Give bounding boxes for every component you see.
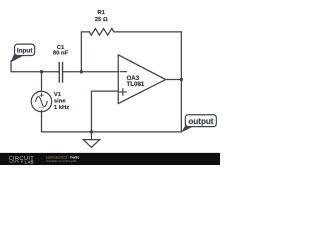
ground <box>90 132 92 140</box>
V1 minus polarity mark <box>39 106 44 108</box>
V1 plus polarity mark <box>40 94 43 96</box>
wire V1 bottom <box>41 111 43 132</box>
op-amp inverting input mark <box>120 71 126 73</box>
output flag <box>181 115 216 133</box>
svg-text:LAB: LAB <box>25 159 34 164</box>
node junction C1/feedback <box>80 70 83 73</box>
logo waveform <box>9 161 20 163</box>
labels <box>53 10 145 111</box>
watermark bar <box>0 153 220 165</box>
wire op-amp output <box>166 79 182 81</box>
svg-text:25 Ω: 25 Ω <box>95 17 108 23</box>
svg-text:input: input <box>17 47 33 54</box>
node junction ground <box>90 130 93 133</box>
wire feedback left <box>81 32 89 72</box>
svg-text:TL081: TL081 <box>126 81 144 88</box>
logo lightning <box>21 160 23 164</box>
op-amp non-inverting input mark <box>120 91 126 93</box>
capacitor C1 <box>58 62 60 82</box>
svg-text:1 kHz: 1 kHz <box>54 105 69 111</box>
svg-text:V1: V1 <box>54 92 62 98</box>
svg-text:80 nF: 80 nF <box>53 51 69 57</box>
wire cap to op-amp minus <box>63 71 119 73</box>
input flag <box>11 44 35 62</box>
wire op-amp plus input <box>91 91 118 132</box>
svg-text:output: output <box>189 117 214 126</box>
wire ground rail <box>42 32 182 132</box>
svg-text:R1: R1 <box>97 10 105 16</box>
voltage source V1 <box>31 91 51 111</box>
node junction output <box>180 78 183 81</box>
wire V1 top <box>41 72 43 92</box>
svg-text:sine: sine <box>54 98 67 104</box>
op-amp OA3 <box>118 55 165 104</box>
resistor R1 <box>89 29 181 36</box>
wire input down <box>11 61 59 72</box>
node junction V1/input <box>40 70 43 73</box>
svg-text:circuitlab.com/c/rkcq43b: circuitlab.com/c/rkcq43b <box>46 159 77 163</box>
